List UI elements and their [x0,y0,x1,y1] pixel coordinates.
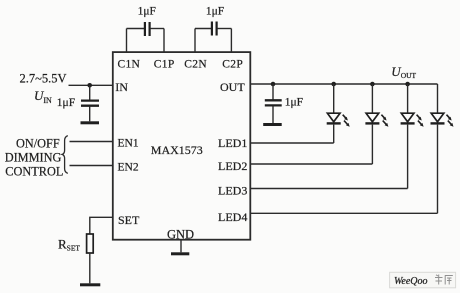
label ON/OFF DIMMING CONTROL [5,137,64,179]
node junction input [87,83,92,88]
svg-text:GND: GND [167,228,194,242]
node junction LED3 [405,82,410,87]
ground GND pin [171,252,189,255]
ground RSET [80,283,100,286]
wire EN2 [70,165,113,167]
resistor RSET [58,234,93,253]
wire SET [90,217,113,234]
svg-text:LED4: LED4 [218,210,247,224]
node junction LED2 [370,82,375,87]
LED D4 [431,84,454,213]
svg-text:EN2: EN2 [118,162,139,174]
svg-text:CONTROL: CONTROL [5,165,63,179]
LED D2 [365,84,388,164]
svg-text:WeeQoo: WeeQoo [394,276,428,287]
svg-text:OUT: OUT [220,80,245,94]
wire GND pin stub [180,240,182,253]
node junction Cout [271,82,276,87]
wire LED4 to pin [250,212,437,214]
svg-text:C1P: C1P [154,59,175,71]
capacitor C-IN 1uF [57,85,99,121]
svg-text:DIMMING: DIMMING [5,151,62,165]
wire RSET to ground [89,253,91,283]
svg-text:2.7~5.5V: 2.7~5.5V [20,72,67,86]
wire LED2 to pin [250,163,372,165]
svg-text:C2P: C2P [222,59,243,71]
svg-text:EN1: EN1 [118,137,139,149]
capacitor C1 1uF flying [127,5,165,52]
IC U1 MAX1573 [113,52,251,240]
svg-text:C1N: C1N [118,59,141,71]
svg-text:1μF: 1μF [285,97,303,109]
svg-text:MAX1573: MAX1573 [151,143,203,157]
ground input cap [81,121,100,124]
ground output cap [263,123,282,126]
capacitor C-OUT 1uF [265,84,303,123]
svg-text:LED1: LED1 [218,136,247,150]
brace for EN1 EN2 [62,136,68,174]
capacitor C2 1uF flying [195,5,231,52]
svg-text:1μF: 1μF [138,5,156,17]
svg-text:1μF: 1μF [206,5,224,17]
svg-text:IN: IN [115,80,128,94]
svg-text:LED3: LED3 [218,183,247,197]
watermark box [390,272,456,288]
wire IN input [69,84,113,86]
svg-text:ON/OFF: ON/OFF [16,137,60,151]
svg-text:LED2: LED2 [218,159,247,173]
svg-text:C2N: C2N [184,59,207,71]
LED D3 [401,84,424,189]
svg-text:SET: SET [118,213,140,227]
wire EN1 [70,141,113,143]
LED D1 [327,84,350,143]
wire LED1 to pin [250,142,333,144]
wire OUT rail [250,83,437,85]
node junction LED1 [331,82,336,87]
svg-text:1μF: 1μF [57,97,75,109]
wire LED3 to pin [250,188,407,190]
